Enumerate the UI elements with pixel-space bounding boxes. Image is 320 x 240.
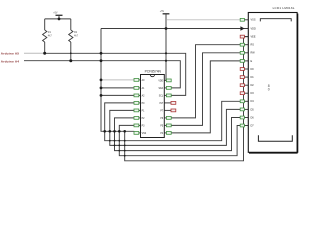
svg-text:LCD1 LM016L: LCD1 LM016L bbox=[273, 6, 295, 10]
svg-text:4k7: 4k7 bbox=[74, 34, 79, 37]
svg-text:VSS: VSS bbox=[142, 133, 147, 135]
svg-text:0: 0 bbox=[268, 88, 270, 92]
svg-text:RW: RW bbox=[251, 52, 256, 55]
svg-text:SCL: SCL bbox=[159, 95, 164, 97]
svg-text:VEE: VEE bbox=[251, 36, 256, 39]
svg-text:VSS: VSS bbox=[251, 19, 256, 22]
svg-text:+5V: +5V bbox=[160, 10, 165, 13]
svg-text:SDA: SDA bbox=[158, 87, 163, 90]
svg-text:INT: INT bbox=[159, 103, 163, 105]
svg-text:Arduino A4: Arduino A4 bbox=[1, 60, 19, 64]
svg-text:Arduino A5: Arduino A5 bbox=[1, 51, 19, 55]
svg-text:VDD: VDD bbox=[251, 27, 256, 30]
svg-text:4k7: 4k7 bbox=[48, 34, 53, 37]
svg-text:RS: RS bbox=[251, 44, 255, 47]
svg-text:+5V: +5V bbox=[53, 12, 58, 15]
svg-text:VDD: VDD bbox=[158, 80, 163, 82]
svg-text:PCF8574N: PCF8574N bbox=[145, 70, 162, 74]
